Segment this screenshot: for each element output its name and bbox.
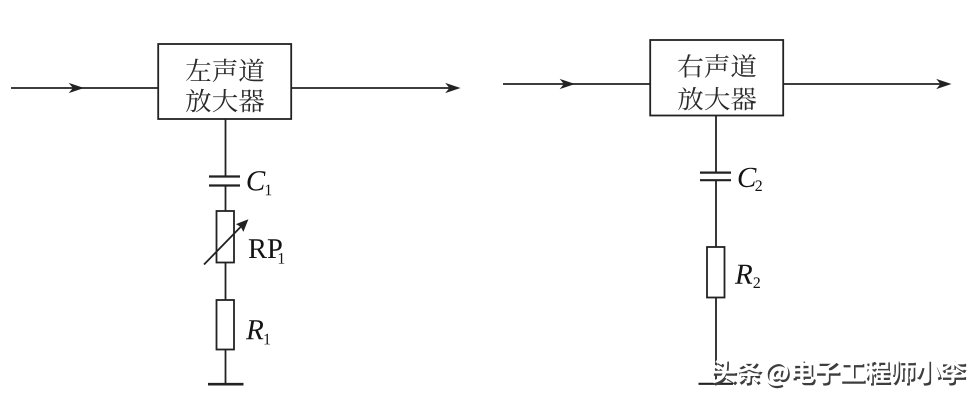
wire R1 to ground (225, 350, 227, 385)
watermark white text 头条@电子工程师小李 (712, 359, 965, 386)
label RP1 subscript 1 (279, 253, 285, 264)
label C1 subscript 1 (266, 185, 272, 196)
wire right output (783, 83, 948, 85)
wire C2 to R2 (715, 180, 717, 247)
label R2 subscript 2 (754, 277, 760, 288)
potentiometer RP1 (217, 211, 235, 263)
arrowhead right input (560, 79, 575, 89)
label R1 subscript 1 (264, 334, 270, 345)
label C2 letter (739, 168, 757, 188)
resistor R2 (707, 247, 725, 298)
wire box to C1 (225, 119, 227, 176)
arrowhead right output (936, 79, 951, 89)
wire left output (291, 87, 457, 89)
amplifier box 左声道放大器 (158, 44, 291, 119)
label C2 subscript 2 (755, 180, 761, 191)
box text 放大器 (right) (678, 87, 756, 111)
watermark shadow 头条@电子工程师小李 (714, 361, 967, 388)
wire RP1 to R1 (225, 263, 227, 301)
RP1 diagonal arrow (204, 225, 243, 265)
capacitor C2 (700, 172, 731, 174)
label C1 letter (248, 171, 266, 191)
label R1 letter (246, 320, 263, 339)
wire left input (11, 87, 158, 89)
wire C1 to RP1 (225, 186, 227, 212)
resistor R1 (217, 300, 235, 350)
box text 放大器 (left) (186, 89, 264, 113)
capacitor C1 (209, 175, 240, 177)
wire right input (503, 83, 650, 85)
arrowhead left input (69, 83, 84, 93)
box text 左声道 (186, 59, 264, 83)
box text 右声道 (678, 54, 756, 78)
ground (left) (208, 383, 244, 386)
label RP1 letters (249, 239, 282, 258)
amplifier box 右声道放大器 (650, 40, 783, 116)
arrowhead left output (445, 83, 460, 93)
ground (right) (699, 383, 734, 385)
label R2 letter (735, 265, 752, 284)
wire box to C2 (715, 116, 717, 173)
wire R2 to ground (715, 298, 717, 385)
